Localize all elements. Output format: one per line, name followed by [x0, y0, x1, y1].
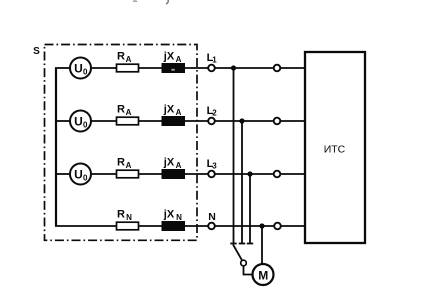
resistor RA (L1)	[117, 64, 139, 72]
label jXA (L3)	[163, 157, 182, 171]
label jXA (L2)	[163, 104, 182, 118]
svg-text:R: R	[117, 157, 125, 169]
svg-text:R: R	[117, 104, 125, 116]
label jXN	[163, 209, 182, 223]
label RA (L2)	[117, 104, 132, 118]
svg-text:N: N	[176, 213, 182, 222]
inductor jXA (L2)	[162, 117, 185, 126]
contact tick L3	[247, 243, 253, 245]
wire: switch contact to motor	[244, 266, 253, 275]
wire: terminal L1 to ITS box	[215, 67, 305, 69]
wire: U0 to RA (L1)	[91, 67, 117, 69]
terminal L3 (open circle)	[208, 171, 215, 178]
svg-text:3: 3	[212, 162, 217, 171]
svg-text:U: U	[74, 168, 83, 182]
junction node on L2	[239, 118, 244, 123]
resistor RA (L3)	[117, 170, 139, 178]
inductor jXA (L1)	[162, 64, 185, 73]
svg-text:R: R	[117, 51, 125, 63]
wire: jXA to terminal L1	[185, 67, 209, 69]
svg-text:N: N	[208, 211, 216, 223]
svg-text:jX: jX	[163, 157, 175, 169]
voltage source U0 (phase L2)	[70, 111, 91, 132]
junction node on L1	[231, 65, 236, 70]
label L2	[207, 105, 218, 118]
wire: RA to jXA (L3)	[139, 173, 163, 175]
dropline from L3 junction	[249, 174, 251, 243]
svg-text:0: 0	[83, 68, 88, 77]
wire: U0 to RA (L2)	[91, 120, 117, 122]
motor M	[253, 264, 274, 285]
top edge cropped text remnant 1	[133, 0, 137, 3]
wire: RA to jXA (L1)	[139, 67, 163, 69]
wire: U0 to RA (L3)	[91, 173, 117, 175]
svg-text:M: M	[258, 268, 268, 282]
wire: bus to U0 (L3)	[55, 173, 70, 175]
label jXA (L1)	[163, 51, 182, 65]
label L3	[207, 158, 218, 171]
junction node on N	[259, 223, 264, 228]
wire: RN to jXN	[139, 225, 163, 227]
inductor jXN	[162, 222, 185, 231]
svg-text:U: U	[74, 62, 83, 76]
resistor RA (L2)	[117, 117, 139, 125]
voltage source U0 (phase L3)	[70, 164, 91, 185]
terminal L1 (open circle)	[208, 65, 215, 72]
wire: jXN to terminal N	[185, 225, 209, 227]
contact tick L2	[239, 243, 245, 245]
right terminal on L1 (open circle)	[274, 65, 281, 72]
svg-text:R: R	[117, 209, 125, 221]
terminal L2 (open circle)	[208, 118, 215, 125]
wire: bus corner to RN (N row)	[55, 225, 117, 227]
label RA (L3)	[117, 157, 132, 171]
dropline from L2 junction	[241, 121, 243, 243]
wire: terminal L2 to ITS box	[215, 120, 305, 122]
svg-text:jX: jX	[163, 51, 175, 63]
wire: terminal L3 to ITS box	[215, 173, 305, 175]
right terminal on L3 (open circle)	[274, 171, 281, 178]
wire: jXA to terminal L2	[185, 120, 209, 122]
svg-text:A: A	[126, 55, 132, 64]
label RA (L1)	[117, 51, 132, 65]
switch blade	[233, 245, 242, 261]
contact tick L1	[230, 243, 236, 245]
svg-text:A: A	[126, 108, 132, 117]
voltage source U0 (phase L1)	[70, 58, 91, 79]
inductor jXA (L3)	[162, 170, 185, 179]
svg-text:jX: jX	[163, 104, 175, 116]
svg-text:jX: jX	[163, 209, 175, 221]
right terminal on N (open circle)	[274, 223, 281, 230]
svg-text:A: A	[126, 161, 132, 170]
label L1	[207, 52, 218, 65]
switch contact (open circle)	[241, 260, 247, 266]
terminal N (open circle)	[208, 223, 215, 230]
svg-text:U: U	[74, 115, 83, 129]
ITS box	[305, 52, 365, 243]
svg-text:0: 0	[83, 174, 88, 183]
wire: terminal N to ITS box	[215, 225, 305, 227]
top edge cropped text remnant 2	[166, 0, 168, 4]
dashed source boundary box S	[45, 45, 198, 241]
wire: RA to jXA (L2)	[139, 120, 163, 122]
dropline from L1 junction	[233, 68, 235, 243]
wire: N junction to motor	[261, 226, 263, 264]
wire: bus to U0 (L2)	[55, 120, 70, 122]
svg-text:A: A	[176, 161, 182, 170]
bus wire (left vertical inside S)	[55, 68, 57, 226]
svg-text:A: A	[176, 108, 182, 117]
svg-text:1: 1	[212, 56, 217, 65]
svg-text:N: N	[126, 213, 132, 222]
scan speck on jXA (L1)	[171, 69, 174, 71]
svg-text:S: S	[33, 46, 40, 57]
right terminal on L2 (open circle)	[274, 118, 281, 125]
svg-text:ИТС: ИТС	[324, 144, 346, 156]
wire: jXA to terminal L3	[185, 173, 209, 175]
svg-text:0: 0	[83, 121, 88, 130]
svg-text:A: A	[176, 55, 182, 64]
label RN	[117, 209, 132, 223]
junction node on L3	[247, 171, 252, 176]
svg-text:2: 2	[212, 109, 217, 118]
resistor RN	[117, 222, 139, 230]
wire: bus to U0 (L1)	[55, 67, 70, 69]
